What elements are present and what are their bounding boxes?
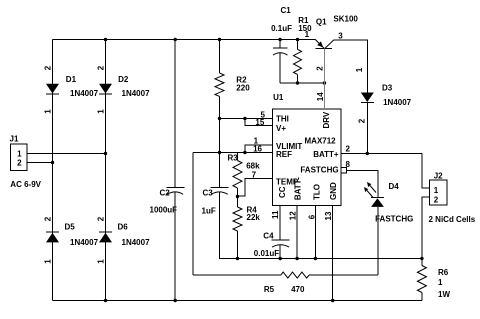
wire top rail — [53, 39, 316, 41]
node R1 bottom junction — [296, 81, 299, 84]
svg-text:CC: CC — [278, 186, 287, 198]
node J1 pin1 junction — [104, 152, 107, 155]
svg-text:16: 16 — [253, 145, 262, 154]
node R1 top rail junction — [296, 38, 299, 41]
wire C2 bottom — [174, 192, 176, 301]
svg-text:1: 1 — [305, 30, 310, 39]
svg-text:1: 1 — [97, 259, 106, 264]
wire V+ rail — [219, 96, 221, 187]
svg-text:22k: 22k — [247, 213, 261, 222]
svg-text:12: 12 — [289, 211, 298, 220]
svg-text:1: 1 — [438, 278, 443, 287]
node top rail / D2 rail — [104, 38, 107, 41]
svg-text:3: 3 — [338, 31, 343, 40]
svg-text:6: 6 — [307, 214, 316, 219]
wire R2 top lead — [219, 40, 221, 74]
svg-text:FASTCHG: FASTCHG — [375, 215, 413, 224]
resistor R4 — [233, 197, 242, 259]
node D6 bottom rail junction — [104, 299, 107, 302]
svg-text:1: 1 — [17, 150, 22, 159]
svg-text:V+: V+ — [276, 124, 286, 133]
wire D3 cathode — [366, 103, 368, 154]
wire D4 cathode down — [377, 207, 379, 275]
wire pin5 stub — [245, 118, 273, 120]
wire BATT+ drop to J2 — [422, 154, 430, 188]
wire BATT+ — [341, 153, 422, 155]
svg-text:1: 1 — [434, 186, 439, 195]
svg-text:1000uF: 1000uF — [150, 206, 178, 215]
capacitor C2 — [167, 188, 185, 195]
node BATT- right junction — [420, 257, 423, 260]
wire R5 right — [309, 274, 378, 276]
node C1 top rail junction — [278, 38, 281, 41]
svg-text:DRV: DRV — [322, 111, 331, 128]
node R3/R4/TEMP junction — [236, 195, 239, 198]
svg-text:R3: R3 — [228, 154, 239, 163]
IC U1 MAX712 — [273, 109, 342, 206]
svg-text:1N4007: 1N4007 — [70, 89, 99, 98]
svg-text:1: 1 — [355, 67, 364, 72]
wire pin6 — [314, 206, 316, 259]
wire GND pin13 — [332, 206, 334, 301]
wire J2 pin2 — [422, 197, 430, 259]
svg-text:1N4007: 1N4007 — [383, 98, 412, 107]
svg-text:1: 1 — [44, 109, 53, 114]
svg-text:0.1uF: 0.1uF — [271, 24, 292, 33]
svg-text:1N4007: 1N4007 — [122, 89, 151, 98]
node D3/BATT+ junction — [366, 152, 369, 155]
svg-text:2: 2 — [97, 65, 106, 70]
wire J1 pin1 — [27, 153, 106, 155]
node C2 bottom rail junction — [174, 299, 177, 302]
svg-text:J2: J2 — [434, 172, 443, 181]
diode D6 — [99, 232, 112, 242]
diode D5 — [46, 232, 59, 242]
svg-text:8: 8 — [346, 160, 351, 169]
wire left rail — [52, 40, 54, 301]
svg-text:C2: C2 — [160, 189, 171, 198]
svg-text:2: 2 — [44, 65, 53, 70]
diode D3 — [361, 93, 374, 103]
node C2 top rail junction — [174, 38, 177, 41]
svg-text:J1: J1 — [10, 135, 19, 144]
svg-text:2: 2 — [316, 66, 325, 71]
svg-text:BATT+: BATT+ — [313, 150, 339, 159]
wire pin16 stub — [245, 152, 273, 154]
svg-text:R6: R6 — [438, 268, 449, 277]
svg-text:7: 7 — [252, 171, 257, 180]
svg-text:D3: D3 — [382, 84, 393, 93]
svg-text:2: 2 — [434, 195, 439, 204]
wire REF feed — [193, 152, 245, 154]
node GND bottom rail junction — [331, 299, 334, 302]
resistor R6 — [417, 259, 426, 301]
svg-text:C3: C3 — [203, 189, 214, 198]
svg-text:470: 470 — [291, 285, 305, 294]
wire pin15 stub — [245, 119, 273, 126]
svg-text:2: 2 — [17, 159, 22, 168]
svg-text:14: 14 — [316, 92, 325, 101]
wire J1 pin2 — [27, 162, 53, 164]
svg-text:AC 6-9V: AC 6-9V — [10, 180, 41, 189]
svg-text:MAX712: MAX712 — [305, 137, 337, 146]
svg-text:15: 15 — [255, 118, 264, 127]
svg-text:Q1: Q1 — [316, 18, 327, 27]
svg-text:1: 1 — [44, 259, 53, 264]
svg-text:D1: D1 — [66, 75, 77, 84]
svg-text:FASTCHG: FASTCHG — [300, 166, 338, 175]
node J1 pin2 junction — [51, 161, 54, 164]
node REF junction — [218, 151, 221, 154]
capacitor C3 — [211, 188, 229, 195]
wire D2-D6 rail — [105, 40, 107, 301]
svg-text:D2: D2 — [118, 75, 129, 84]
svg-text:C1: C1 — [281, 6, 292, 15]
wire R5 left — [193, 274, 281, 276]
wire bottom rail — [53, 300, 422, 302]
svg-text:1N4007: 1N4007 — [70, 238, 99, 247]
svg-text:D4: D4 — [389, 182, 400, 191]
svg-text:GND: GND — [329, 182, 338, 200]
node V+ junction — [218, 117, 221, 120]
svg-text:1N4007: 1N4007 — [122, 238, 151, 247]
svg-text:1: 1 — [97, 109, 106, 114]
wire pin11 to C4 — [279, 206, 281, 241]
resistor R5 — [281, 272, 309, 278]
svg-text:0.01uF: 0.01uF — [254, 249, 279, 258]
wire C1-R1 bottom bus — [280, 82, 324, 84]
node R2 top rail junction — [218, 38, 221, 41]
svg-text:13: 13 — [324, 211, 333, 220]
resistor R1 — [294, 40, 302, 84]
node pin5/15 tie — [243, 117, 246, 120]
capacitor C4 — [272, 240, 290, 258]
svg-text:REF: REF — [276, 150, 292, 159]
svg-text:SK100: SK100 — [333, 15, 358, 24]
transistor Q1 — [315, 40, 333, 49]
wire pin12 — [296, 206, 298, 259]
node R4 bottom junction — [236, 257, 239, 260]
svg-text:TLO: TLO — [312, 184, 321, 200]
wire TEMP — [238, 179, 273, 197]
wire Q1 collector to D3 — [334, 40, 368, 93]
node DRV junction — [323, 81, 326, 84]
pin 8 bubble — [341, 168, 347, 174]
svg-text:U1: U1 — [273, 93, 284, 102]
svg-text:C4: C4 — [263, 232, 274, 241]
wire pin1 stub — [245, 145, 273, 153]
node pin6 junction — [314, 257, 317, 260]
connector J2 — [430, 180, 448, 205]
wire C2 top — [174, 40, 176, 188]
svg-text:2: 2 — [44, 216, 53, 221]
node pin12 junction — [295, 257, 298, 260]
wire FASTCHG — [347, 170, 378, 197]
resistor R2 — [215, 73, 224, 96]
svg-text:R5: R5 — [264, 285, 275, 294]
svg-text:2: 2 — [346, 145, 351, 154]
svg-text:D5: D5 — [65, 223, 76, 232]
wire C3 bottom — [220, 192, 422, 259]
capacitor C1 — [273, 40, 288, 84]
svg-text:2 NiCd Cells: 2 NiCd Cells — [429, 215, 476, 224]
node C4 bottom junction — [279, 257, 282, 260]
connector J1 — [11, 144, 27, 171]
led D4 — [364, 182, 384, 207]
svg-text:1W: 1W — [438, 290, 450, 299]
svg-text:68k: 68k — [246, 162, 260, 171]
diode D1 — [46, 84, 59, 94]
svg-text:11: 11 — [271, 210, 280, 219]
svg-text:BATT-: BATT- — [294, 177, 303, 200]
wire VLIMIT/REF drop — [192, 153, 194, 276]
svg-text:1uF: 1uF — [202, 207, 216, 216]
svg-text:220: 220 — [236, 84, 250, 93]
svg-text:THI: THI — [276, 114, 289, 123]
resistor R3 — [233, 153, 242, 197]
wire V+ to U1 — [220, 118, 245, 120]
wire DRV (Q1 base) — [324, 49, 326, 109]
svg-text:2: 2 — [358, 118, 367, 123]
diode D2 — [99, 84, 112, 94]
node pin1/16 tie — [243, 151, 246, 154]
svg-text:2: 2 — [97, 216, 106, 221]
svg-text:D6: D6 — [118, 223, 129, 232]
